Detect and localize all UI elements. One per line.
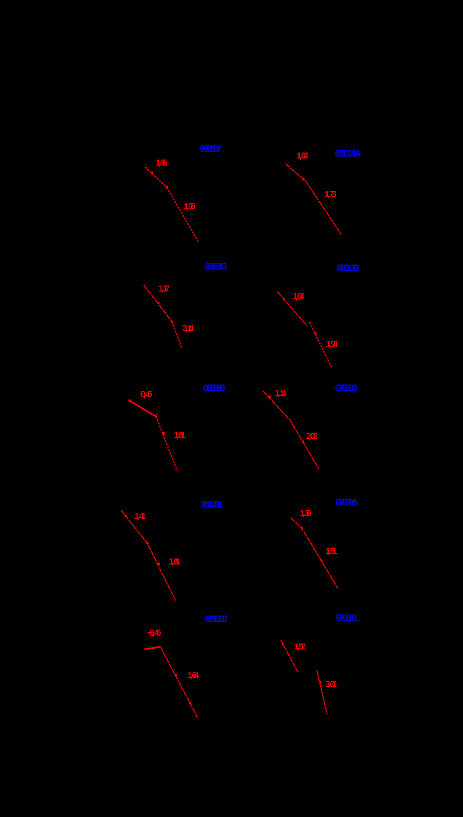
wire light curve 070311 segment 2 — [317, 670, 327, 714]
wire light curve 061202 — [144, 647, 160, 650]
svg-text:070311: 070311 — [336, 614, 359, 625]
wire light curve 070110 segment 1 — [278, 292, 307, 326]
node point 060607 a — [151, 171, 153, 173]
node point 070306 b — [320, 560, 322, 562]
wire light curve 060607 steep part — [167, 187, 199, 242]
wire light curve 060813 steep part — [172, 322, 182, 349]
wire light curve 060813 — [144, 285, 172, 322]
svg-text:061201: 061201 — [201, 501, 224, 512]
node point 061201 a — [125, 515, 127, 517]
wire light curve 070220 — [263, 391, 319, 469]
node point 070220 b — [302, 440, 304, 442]
node point 061201 c — [158, 563, 160, 565]
wire light curve 070306 — [291, 518, 338, 589]
node point 060906 a — [129, 400, 131, 402]
wire light curve 051221A — [286, 164, 342, 235]
wire light curve 070110 segment 2 — [310, 322, 332, 367]
wire light curve 061201 — [121, 510, 176, 600]
node point 051221A — [302, 178, 304, 180]
node point 060813 a — [157, 302, 159, 304]
node point 070110 a — [283, 298, 285, 300]
wire light curve 070311 segment 1 — [281, 640, 298, 672]
node point 060906 b — [163, 432, 165, 434]
node point 060607 b — [166, 186, 168, 188]
node point 060813 b — [171, 321, 173, 323]
wire light curve 060607 — [145, 167, 167, 187]
node point 070306 a — [301, 527, 303, 529]
svg-text:060607: 060607 — [200, 145, 223, 156]
node point 070220 a — [269, 395, 271, 397]
svg-text:070110: 070110 — [337, 264, 360, 275]
wire light curve 060906 — [130, 401, 157, 417]
svg-text:051221A: 051221A — [335, 149, 361, 160]
svg-text:070306: 070306 — [336, 498, 359, 509]
node point 061202 c — [189, 702, 191, 704]
node point 070311 b — [320, 681, 322, 683]
svg-text:070220: 070220 — [335, 384, 358, 395]
wire light curve 061202 steep part — [160, 647, 197, 718]
svg-text:060813: 060813 — [205, 262, 228, 273]
svg-text:061202: 061202 — [205, 615, 228, 626]
node data points — [125, 171, 323, 704]
node point 061202 a — [152, 647, 154, 649]
node point 060906 tick — [156, 413, 157, 417]
node point 070110 b — [314, 332, 316, 334]
node point 070311 a — [282, 644, 284, 646]
svg-text:060906: 060906 — [203, 384, 226, 395]
wire light curve 060906 steep part — [156, 417, 177, 471]
node point 061201 b — [146, 542, 148, 544]
node point 061202 b — [175, 674, 177, 676]
